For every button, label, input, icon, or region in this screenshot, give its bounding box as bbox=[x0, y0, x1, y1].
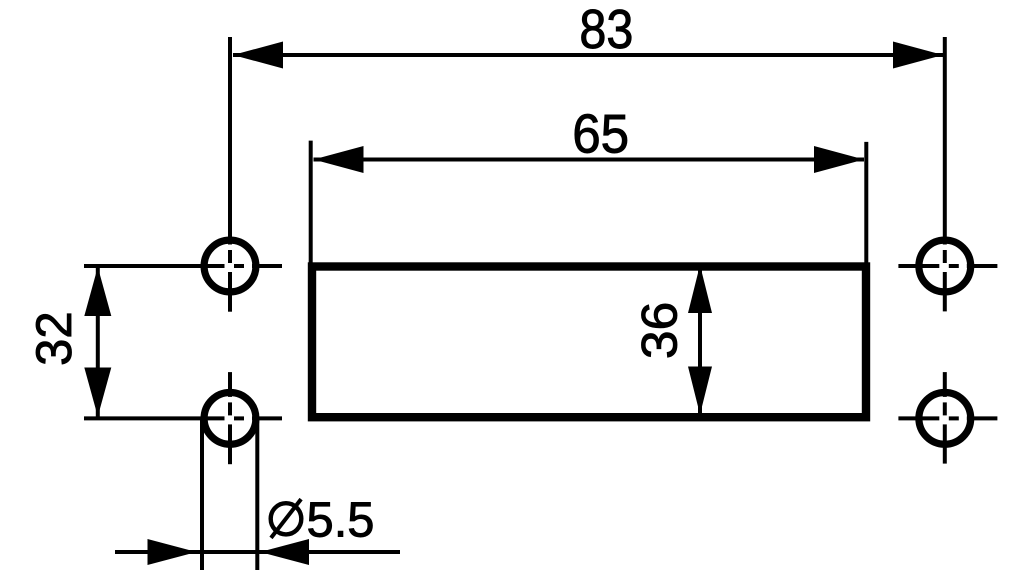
center line horizontal bottom-left (also extension line of dim 32 bottom) bbox=[84, 416, 282, 420]
dimension 36: bottom arrowhead bbox=[688, 367, 712, 415]
dimension 32: top arrowhead bbox=[84, 267, 111, 316]
panel cutout rectangle bbox=[312, 267, 866, 418]
svg-text:32: 32 bbox=[26, 311, 82, 366]
svg-text:83: 83 bbox=[579, 0, 633, 60]
svg-text:36: 36 bbox=[632, 302, 688, 360]
center line vertical top-right (also extension line of dim 83) bbox=[943, 37, 947, 311]
dimension 36: dimension line bbox=[698, 265, 702, 415]
svg-text:5.5: 5.5 bbox=[307, 494, 375, 548]
dimension diameter 5.5: left arrowhead bbox=[148, 539, 197, 565]
dimension 65: value label bbox=[572, 103, 629, 165]
dimension 32: dimension line bbox=[96, 267, 100, 417]
center line vertical bottom-right bbox=[943, 372, 947, 464]
center line vertical top-left (also extension line of dim 83) bbox=[228, 37, 232, 312]
hole circle top-left bbox=[204, 240, 256, 292]
dimension 36: top arrowhead bbox=[688, 265, 712, 313]
dimension 36: value label (rotated) bbox=[632, 302, 688, 360]
hole circle top-right bbox=[919, 240, 971, 292]
center line horizontal top-right bbox=[898, 264, 997, 268]
dimension diameter 5.5: dimension line bbox=[115, 550, 400, 554]
dimension diameter 5.5: right arrowhead bbox=[260, 539, 309, 565]
dimension 83: right arrowhead bbox=[893, 42, 943, 69]
hole circle bottom-left bbox=[204, 393, 256, 445]
center line horizontal top-left (also extension line of dim 32 top) bbox=[84, 264, 282, 268]
dimension 83: dimension line bbox=[233, 53, 943, 57]
dimension diameter 5.5: right tangent extension line bbox=[255, 418, 259, 570]
dimension diameter 5.5: diameter symbol bbox=[271, 499, 302, 538]
dimension diameter 5.5: value label bbox=[307, 494, 375, 548]
dimension 65: dimension line bbox=[314, 158, 865, 162]
dimension 83: left arrowhead bbox=[233, 42, 283, 69]
dimension 83: value label bbox=[579, 0, 633, 60]
dimension 32: bottom arrowhead bbox=[84, 368, 111, 417]
dimension 65: left extension line bbox=[309, 141, 313, 263]
svg-text:65: 65 bbox=[572, 103, 629, 165]
dimension diameter 5.5: left tangent extension line bbox=[200, 418, 204, 570]
dimension 65: left arrowhead bbox=[314, 146, 364, 173]
dimension 65: right arrowhead bbox=[814, 146, 864, 173]
center line vertical bottom-left bbox=[228, 372, 232, 464]
center line horizontal bottom-right bbox=[898, 416, 997, 420]
dimension 32: value label (rotated) bbox=[26, 311, 82, 366]
hole circle bottom-right bbox=[919, 393, 971, 445]
dimension 65: right extension line bbox=[864, 142, 868, 263]
